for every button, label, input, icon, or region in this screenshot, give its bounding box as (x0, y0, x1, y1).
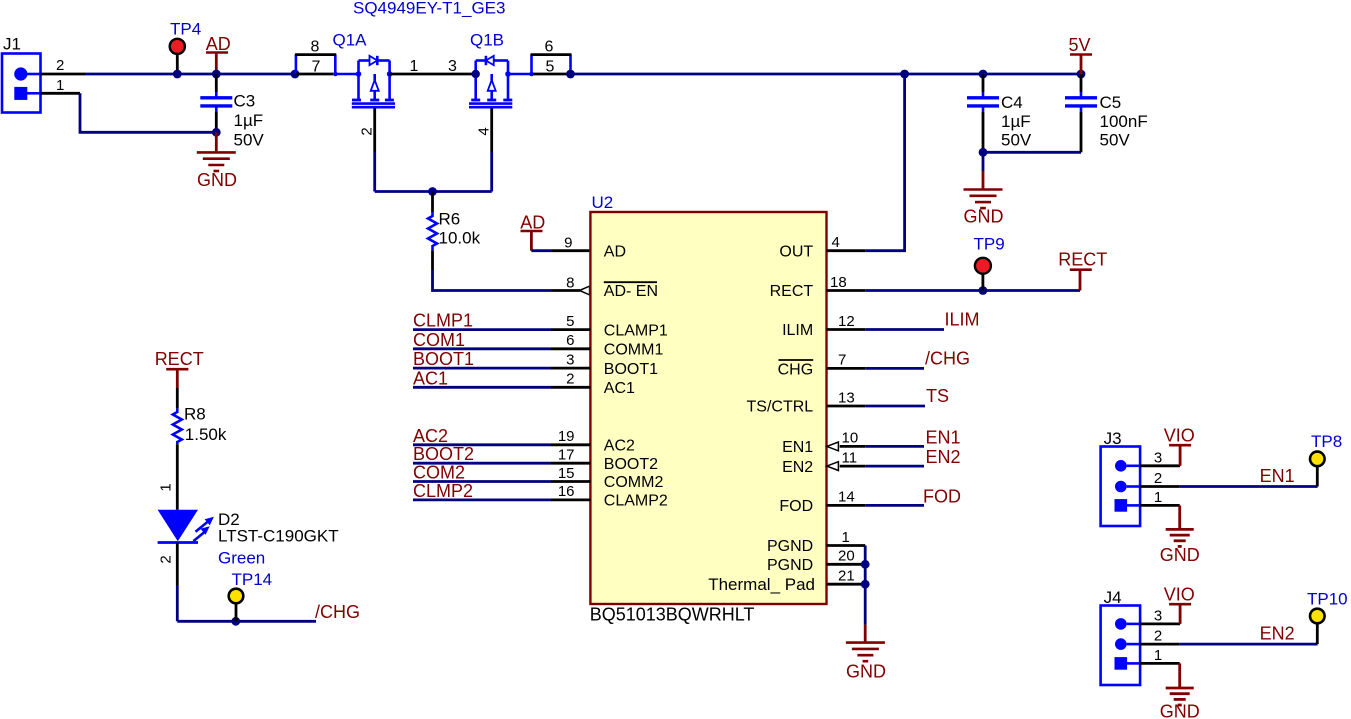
svg-text:TP14: TP14 (232, 570, 273, 589)
svg-text:AC1: AC1 (604, 380, 635, 397)
wire AD port to U2 pin 9 (531, 249, 552, 252)
svg-text:CLMP1: CLMP1 (413, 311, 473, 331)
svg-text:FOD: FOD (923, 486, 961, 506)
wire main 5V rail right of jumper 6/5 (571, 73, 1082, 76)
wire AC2 to U2 pin 19 (413, 443, 551, 446)
svg-text:BOOT2: BOOT2 (413, 444, 474, 464)
wire BOOT1 to U2 pin 3 (413, 367, 551, 370)
svg-text:2: 2 (158, 555, 175, 563)
wire U2 TS/CTRL pin 13 (827, 405, 866, 408)
transistor Q1A (333, 31, 396, 108)
net label AD at U2 pin 9 (power port) (520, 213, 545, 251)
svg-text:14: 14 (838, 489, 855, 506)
svg-text:TS/CTRL: TS/CTRL (747, 399, 814, 416)
wire J1 pin 2 stub (27, 73, 41, 76)
wire J1 pin1 to C3 bottom node (80, 93, 216, 132)
svg-text:CHG: CHG (778, 361, 814, 378)
svg-text:100nF: 100nF (1100, 112, 1148, 131)
junction AD node on rail (212, 70, 221, 79)
connector J1 (2, 35, 41, 113)
svg-text:CLAMP1: CLAMP1 (604, 322, 668, 339)
wire J4 pin 3 (1127, 623, 1141, 626)
svg-text:8: 8 (311, 39, 320, 56)
svg-text:5: 5 (566, 313, 574, 330)
svg-text:EN1: EN1 (782, 439, 813, 456)
svg-text:1: 1 (410, 58, 419, 75)
svg-text:5V: 5V (1068, 35, 1090, 55)
svg-text:AD: AD (604, 243, 626, 260)
wire U2 PGND pin 1 (827, 544, 866, 547)
svg-text:1.50k: 1.50k (185, 425, 227, 444)
svg-text:TP9: TP9 (974, 235, 1005, 254)
svg-text:GND: GND (846, 662, 886, 682)
wire BOOT2 to U2 pin 17 (413, 462, 551, 465)
svg-text:C3: C3 (234, 92, 256, 111)
connector J3 (1101, 429, 1141, 526)
svg-text:Q1B: Q1B (470, 31, 504, 50)
svg-text:RECT: RECT (770, 283, 814, 300)
wire U2 ILIM pin 12 (827, 328, 866, 331)
svg-text:21: 21 (838, 568, 855, 585)
svg-text:GND: GND (964, 207, 1004, 227)
junction TP9 on RECT wire (979, 286, 988, 295)
svg-text:CLMP2: CLMP2 (413, 481, 473, 501)
net label RECT (power port right) (1058, 250, 1107, 291)
input arrow U2 pin 10 (827, 442, 839, 451)
svg-text:2: 2 (56, 57, 64, 74)
svg-text:J4: J4 (1104, 588, 1122, 607)
test point TP10 (1307, 590, 1348, 645)
svg-text:BQ51013BQWRHLT: BQ51013BQWRHLT (590, 605, 755, 625)
svg-text:R6: R6 (439, 210, 461, 229)
wire J4 pin 2 to TP10 (1127, 643, 1141, 646)
capacitor C5 (1065, 74, 1148, 152)
svg-text:20: 20 (838, 548, 855, 565)
svg-text:R8: R8 (184, 405, 206, 424)
svg-text:BOOT2: BOOT2 (604, 456, 658, 473)
svg-text:6: 6 (566, 332, 574, 349)
wire jumper to Q1A (335, 73, 358, 76)
svg-text:2: 2 (566, 371, 574, 388)
svg-text:12: 12 (838, 313, 855, 330)
svg-text:ILIM: ILIM (945, 309, 980, 329)
svg-text:10.0k: 10.0k (439, 229, 481, 248)
svg-text:AC1: AC1 (413, 368, 448, 388)
svg-text:RECT: RECT (1058, 250, 1107, 270)
svg-text:AC2: AC2 (604, 438, 635, 455)
power port VIO (J4) (1164, 585, 1195, 624)
svg-text:TP8: TP8 (1311, 432, 1342, 451)
svg-text:/CHG: /CHG (925, 349, 970, 369)
junction OUT riser on rail (900, 70, 909, 79)
svg-text:TP10: TP10 (1307, 590, 1348, 609)
wire CLMP1 to U2 pin 5 (413, 328, 551, 331)
svg-text:3: 3 (566, 351, 574, 368)
junction C3 bottom (212, 128, 221, 137)
wire COM2 to U2 pin 15 (413, 480, 551, 483)
svg-text:10: 10 (842, 430, 859, 447)
wire AC1 to U2 pin 2 (413, 386, 551, 389)
wire U2 pad pin 21 (827, 583, 866, 586)
svg-text:50V: 50V (1100, 131, 1131, 150)
test point TP8 (1310, 432, 1342, 487)
svg-text:4: 4 (476, 127, 493, 135)
svg-text:GND: GND (1160, 702, 1200, 719)
wire R6 to U2 pin 8 (431, 251, 434, 270)
wire Q1A pin2 (gate lead down) (373, 108, 376, 152)
wire RECT to R8 (176, 388, 179, 408)
junction left of jumper 8/7 (291, 70, 300, 79)
svg-text:3: 3 (1154, 449, 1162, 466)
svg-text:3: 3 (1154, 607, 1162, 624)
svg-text:4: 4 (832, 234, 840, 251)
junction TP14 (231, 617, 240, 626)
ground below C3 (197, 132, 237, 190)
svg-text:13: 13 (838, 389, 855, 406)
junction bus to R6 (428, 187, 437, 196)
wire U2 PGND pin 20 (827, 563, 866, 566)
svg-text:18: 18 (830, 274, 847, 291)
svg-text:16: 16 (558, 483, 575, 500)
svg-text:5: 5 (546, 59, 555, 76)
svg-text:8: 8 (566, 275, 574, 292)
wire /CHG horizontal (177, 620, 316, 623)
svg-text:TP4: TP4 (170, 20, 201, 39)
svg-text:1: 1 (158, 483, 175, 491)
junction pad pin 21 (861, 580, 870, 589)
svg-text:BOOT1: BOOT1 (604, 361, 658, 378)
svg-text:U2: U2 (592, 193, 614, 212)
jumper Q1 pins 8/7 (295, 39, 338, 77)
svg-text:RECT: RECT (155, 349, 204, 369)
wire U2 EN1 pin 10 (840, 445, 866, 448)
wire D2 cathode down (176, 543, 179, 586)
svg-text:J3: J3 (1104, 429, 1122, 448)
svg-text:6: 6 (545, 39, 554, 56)
svg-text:VIO: VIO (1164, 585, 1195, 605)
svg-text:1: 1 (842, 529, 850, 546)
net label RECT (power port left) (155, 349, 204, 388)
svg-text:3: 3 (448, 58, 457, 75)
svg-text:Green: Green (218, 549, 265, 568)
ground below U2 (846, 625, 886, 682)
resistor R8 (173, 405, 227, 445)
svg-text:FOD: FOD (779, 498, 813, 515)
svg-text:COM1: COM1 (413, 330, 465, 350)
wire Q1A to Q1B (390, 73, 476, 76)
svg-text:EN1: EN1 (1260, 466, 1295, 486)
resistor R6 (428, 192, 481, 251)
svg-text:1µF: 1µF (234, 111, 264, 130)
svg-text:17: 17 (558, 447, 575, 464)
svg-text:GND: GND (1160, 545, 1200, 565)
svg-text:EN2: EN2 (782, 459, 813, 476)
svg-text:PGND: PGND (767, 557, 813, 574)
svg-text:7: 7 (838, 352, 846, 369)
junction right of jumper 6/5 (566, 70, 575, 79)
input arrow U2 pin 8 (580, 286, 590, 295)
svg-text:BOOT1: BOOT1 (413, 349, 474, 369)
wire PGND down bus (864, 546, 867, 625)
wire U2 RECT pin 18 (827, 289, 866, 292)
wire J1 pin 1 stub (27, 92, 41, 95)
svg-text:OUT: OUT (779, 243, 813, 260)
svg-text:50V: 50V (234, 130, 265, 149)
input arrow U2 pin 11 (827, 462, 839, 471)
ground below C4 (964, 152, 1004, 226)
wire COM1 to U2 pin 6 (413, 347, 551, 350)
wire main AC rail from J1 to jumper (85, 73, 295, 76)
svg-text:9: 9 (564, 235, 572, 252)
wire U2 OUT pin 4 to 5V rail (827, 249, 866, 252)
connector J4 (1101, 588, 1141, 685)
svg-text:/CHG: /CHG (315, 602, 360, 622)
wire CLMP2 to U2 pin 16 (413, 498, 551, 501)
power port 5V (1068, 35, 1092, 74)
capacitor C3 (200, 74, 264, 149)
svg-text:LTST-C190GKT: LTST-C190GKT (218, 527, 339, 546)
junction TP4 on rail (173, 70, 182, 79)
transistor Q1B (469, 31, 512, 108)
test point TP14 (229, 570, 272, 621)
net label AD (power port) (206, 34, 231, 74)
wire J3 pin 1 to ground (1127, 504, 1141, 507)
wire J3 pin 3 (1127, 464, 1141, 467)
wire J3 pin 2 to TP8 (1127, 485, 1141, 488)
wire Q1B to jumper 6/5 (508, 73, 532, 76)
svg-text:2: 2 (1154, 628, 1162, 645)
svg-text:50V: 50V (1001, 131, 1032, 150)
LED D2 (158, 510, 339, 568)
svg-text:15: 15 (558, 465, 575, 482)
junction PGND pin 20 (861, 560, 870, 569)
svg-text:AC2: AC2 (413, 426, 448, 446)
svg-text:TS: TS (926, 386, 949, 406)
svg-text:J1: J1 (3, 35, 21, 54)
junction C4 on rail (979, 70, 988, 79)
svg-text:AD- EN: AD- EN (604, 283, 658, 300)
svg-text:EN1: EN1 (926, 427, 961, 447)
wire U2 FOD pin 14 (827, 504, 866, 507)
svg-text:GND: GND (197, 170, 237, 190)
svg-text:2: 2 (1154, 470, 1162, 487)
junction 5V node on rail (1077, 70, 1086, 79)
wire U2 CHG pin 7 (827, 367, 866, 370)
IC U2 BQ51013BQWRHLT (590, 193, 826, 604)
ground below J3 (1160, 505, 1200, 565)
svg-text:EN2: EN2 (1260, 624, 1295, 644)
wire Q1B pin4 (gate lead down) (490, 108, 493, 152)
wire sources bus of Q1A/Q1B (375, 190, 492, 193)
svg-text:EN2: EN2 (926, 447, 961, 467)
test point TP9 (974, 235, 1005, 291)
test point TP4 (170, 20, 201, 75)
svg-text:7: 7 (312, 59, 321, 76)
svg-text:C4: C4 (1001, 93, 1023, 112)
svg-text:COM2: COM2 (413, 463, 465, 483)
svg-text:1: 1 (1154, 647, 1162, 664)
wire U2 EN2 pin 11 (840, 465, 866, 468)
svg-text:COMM1: COMM1 (604, 342, 664, 359)
svg-text:19: 19 (558, 428, 575, 445)
svg-text:2: 2 (359, 127, 376, 135)
svg-text:Thermal_ Pad: Thermal_ Pad (708, 575, 815, 594)
ground below J4 (1160, 663, 1200, 719)
wire J4 pin 1 to ground (1127, 662, 1141, 665)
wire C4/C5 bottom link (983, 151, 1081, 154)
svg-text:1µF: 1µF (1001, 112, 1031, 131)
jumper Q1 pins 6/5 (529, 39, 571, 77)
junction C4 bottom (979, 148, 988, 157)
wire R8 to D2 anode (176, 444, 179, 510)
svg-text:Q1A: Q1A (333, 31, 368, 50)
svg-text:SQ4949EY-T1_GE3: SQ4949EY-T1_GE3 (353, 0, 505, 18)
svg-text:1: 1 (1154, 489, 1162, 506)
svg-text:1: 1 (56, 77, 64, 94)
svg-text:CLAMP2: CLAMP2 (604, 493, 668, 510)
svg-text:ILIM: ILIM (782, 322, 813, 339)
capacitor C4 (967, 74, 1032, 152)
svg-text:AD: AD (206, 34, 231, 54)
svg-text:VIO: VIO (1164, 426, 1195, 446)
svg-text:PGND: PGND (767, 538, 813, 555)
svg-text:11: 11 (842, 449, 858, 466)
svg-text:C5: C5 (1100, 93, 1122, 112)
svg-text:COMM2: COMM2 (604, 474, 664, 491)
power port VIO (J3) (1164, 426, 1195, 466)
